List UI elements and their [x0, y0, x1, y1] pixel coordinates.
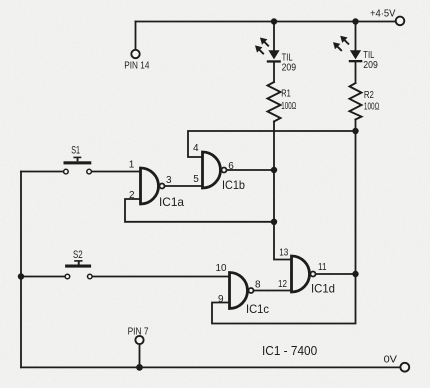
node junction top rail to D1	[271, 18, 277, 24]
wire D2 cathode to R2	[355, 62, 357, 83]
wire IC1a pin 3 to IC1b pin 5	[165, 185, 203, 187]
wire IC1c output pin 8 to IC1d pin 12	[254, 290, 292, 292]
wire left bus vertical	[20, 172, 22, 368]
svg-text:209: 209	[363, 59, 378, 71]
nand gate IC1a	[141, 168, 159, 204]
node junction PIN 7 on 0V rail	[136, 364, 143, 371]
svg-text:4: 4	[193, 143, 199, 154]
switch S2	[65, 260, 92, 279]
resistor R1	[268, 82, 281, 122]
svg-text:3: 3	[166, 175, 172, 186]
wire node A column and feedback loop to IC1c pin 9	[212, 131, 356, 324]
wire S2 to IC1c pin 10	[92, 276, 229, 278]
svg-text:8: 8	[255, 280, 261, 291]
svg-text:209: 209	[282, 62, 297, 74]
node B junction pin 6 output	[271, 167, 277, 173]
node B junction feedback to pin 2	[271, 219, 277, 225]
svg-text:S1: S1	[71, 145, 80, 157]
svg-text:PIN 7: PIN 7	[128, 325, 149, 337]
wire IC1d output pin 11 to node A	[316, 273, 356, 275]
wire PIN 7 stub	[139, 344, 141, 367]
wire IC1b pin 4 loop to node at y131	[188, 131, 356, 157]
LED D2 TIL 209	[350, 50, 361, 59]
svg-text:IC1c: IC1c	[246, 302, 269, 316]
svg-text:S2: S2	[73, 249, 83, 261]
LED D2 arrows	[333, 36, 348, 50]
svg-text:9: 9	[218, 294, 224, 305]
LED D1 arrows	[255, 38, 267, 53]
svg-text:100Ω: 100Ω	[281, 100, 296, 112]
svg-text:IC1 - 7400: IC1 - 7400	[262, 344, 317, 358]
svg-text:R1: R1	[281, 88, 291, 100]
wire LED D2 top feed	[355, 22, 357, 51]
resistor R2	[350, 83, 362, 120]
terminal 0V	[400, 363, 409, 372]
terminal PIN 14	[131, 50, 139, 58]
svg-text:R2: R2	[364, 89, 374, 101]
node junction top rail to D2	[352, 18, 358, 24]
svg-text:0V: 0V	[384, 355, 398, 366]
svg-text:PIN 14: PIN 14	[124, 59, 149, 71]
svg-text:6: 6	[228, 161, 234, 172]
node A junction pin 11 output	[352, 271, 358, 277]
wire LED D1 top feed	[273, 22, 275, 51]
wire node B feedback to IC1a pin 2	[125, 199, 274, 222]
svg-text:12: 12	[278, 279, 287, 290]
svg-text:11: 11	[318, 262, 327, 273]
wire D1 cathode to R1	[273, 62, 275, 82]
LED D1 TIL 209	[268, 50, 279, 59]
node junction S2 row on left bus	[18, 273, 24, 279]
svg-text:100Ω: 100Ω	[364, 100, 380, 112]
terminal +4.5V	[396, 17, 405, 26]
terminal PIN 7	[135, 336, 143, 344]
wire IC1b output pin 6 to node B	[227, 169, 274, 171]
wire 0V bottom rail	[21, 366, 400, 368]
wire R1 bottom to node B column down to IC1d pin 13	[274, 122, 292, 260]
node junction R2 / pin4 wire	[352, 128, 358, 134]
switch S1	[64, 157, 92, 174]
wire +4.5V top rail	[136, 21, 396, 23]
svg-text:2: 2	[129, 190, 135, 201]
svg-text:5: 5	[193, 174, 199, 185]
wire S2 row left segment	[21, 276, 65, 278]
svg-text:+4·5V: +4·5V	[370, 8, 395, 20]
wire R2 bottom to node at y131	[355, 120, 357, 132]
svg-text:IC1a: IC1a	[159, 195, 184, 209]
wire S1 to IC1a pin 1	[92, 171, 141, 173]
svg-text:IC1b: IC1b	[222, 178, 245, 192]
nand gate IC1b	[203, 152, 221, 188]
wire PIN 14 stub	[135, 22, 137, 50]
svg-text:10: 10	[216, 263, 227, 274]
nand gate IC1d	[292, 256, 310, 292]
nand gate IC1c	[230, 273, 248, 309]
svg-text:IC1d: IC1d	[311, 282, 335, 296]
svg-text:13: 13	[279, 248, 288, 259]
svg-text:1: 1	[129, 159, 135, 170]
wire S1 row left segment	[21, 171, 63, 173]
